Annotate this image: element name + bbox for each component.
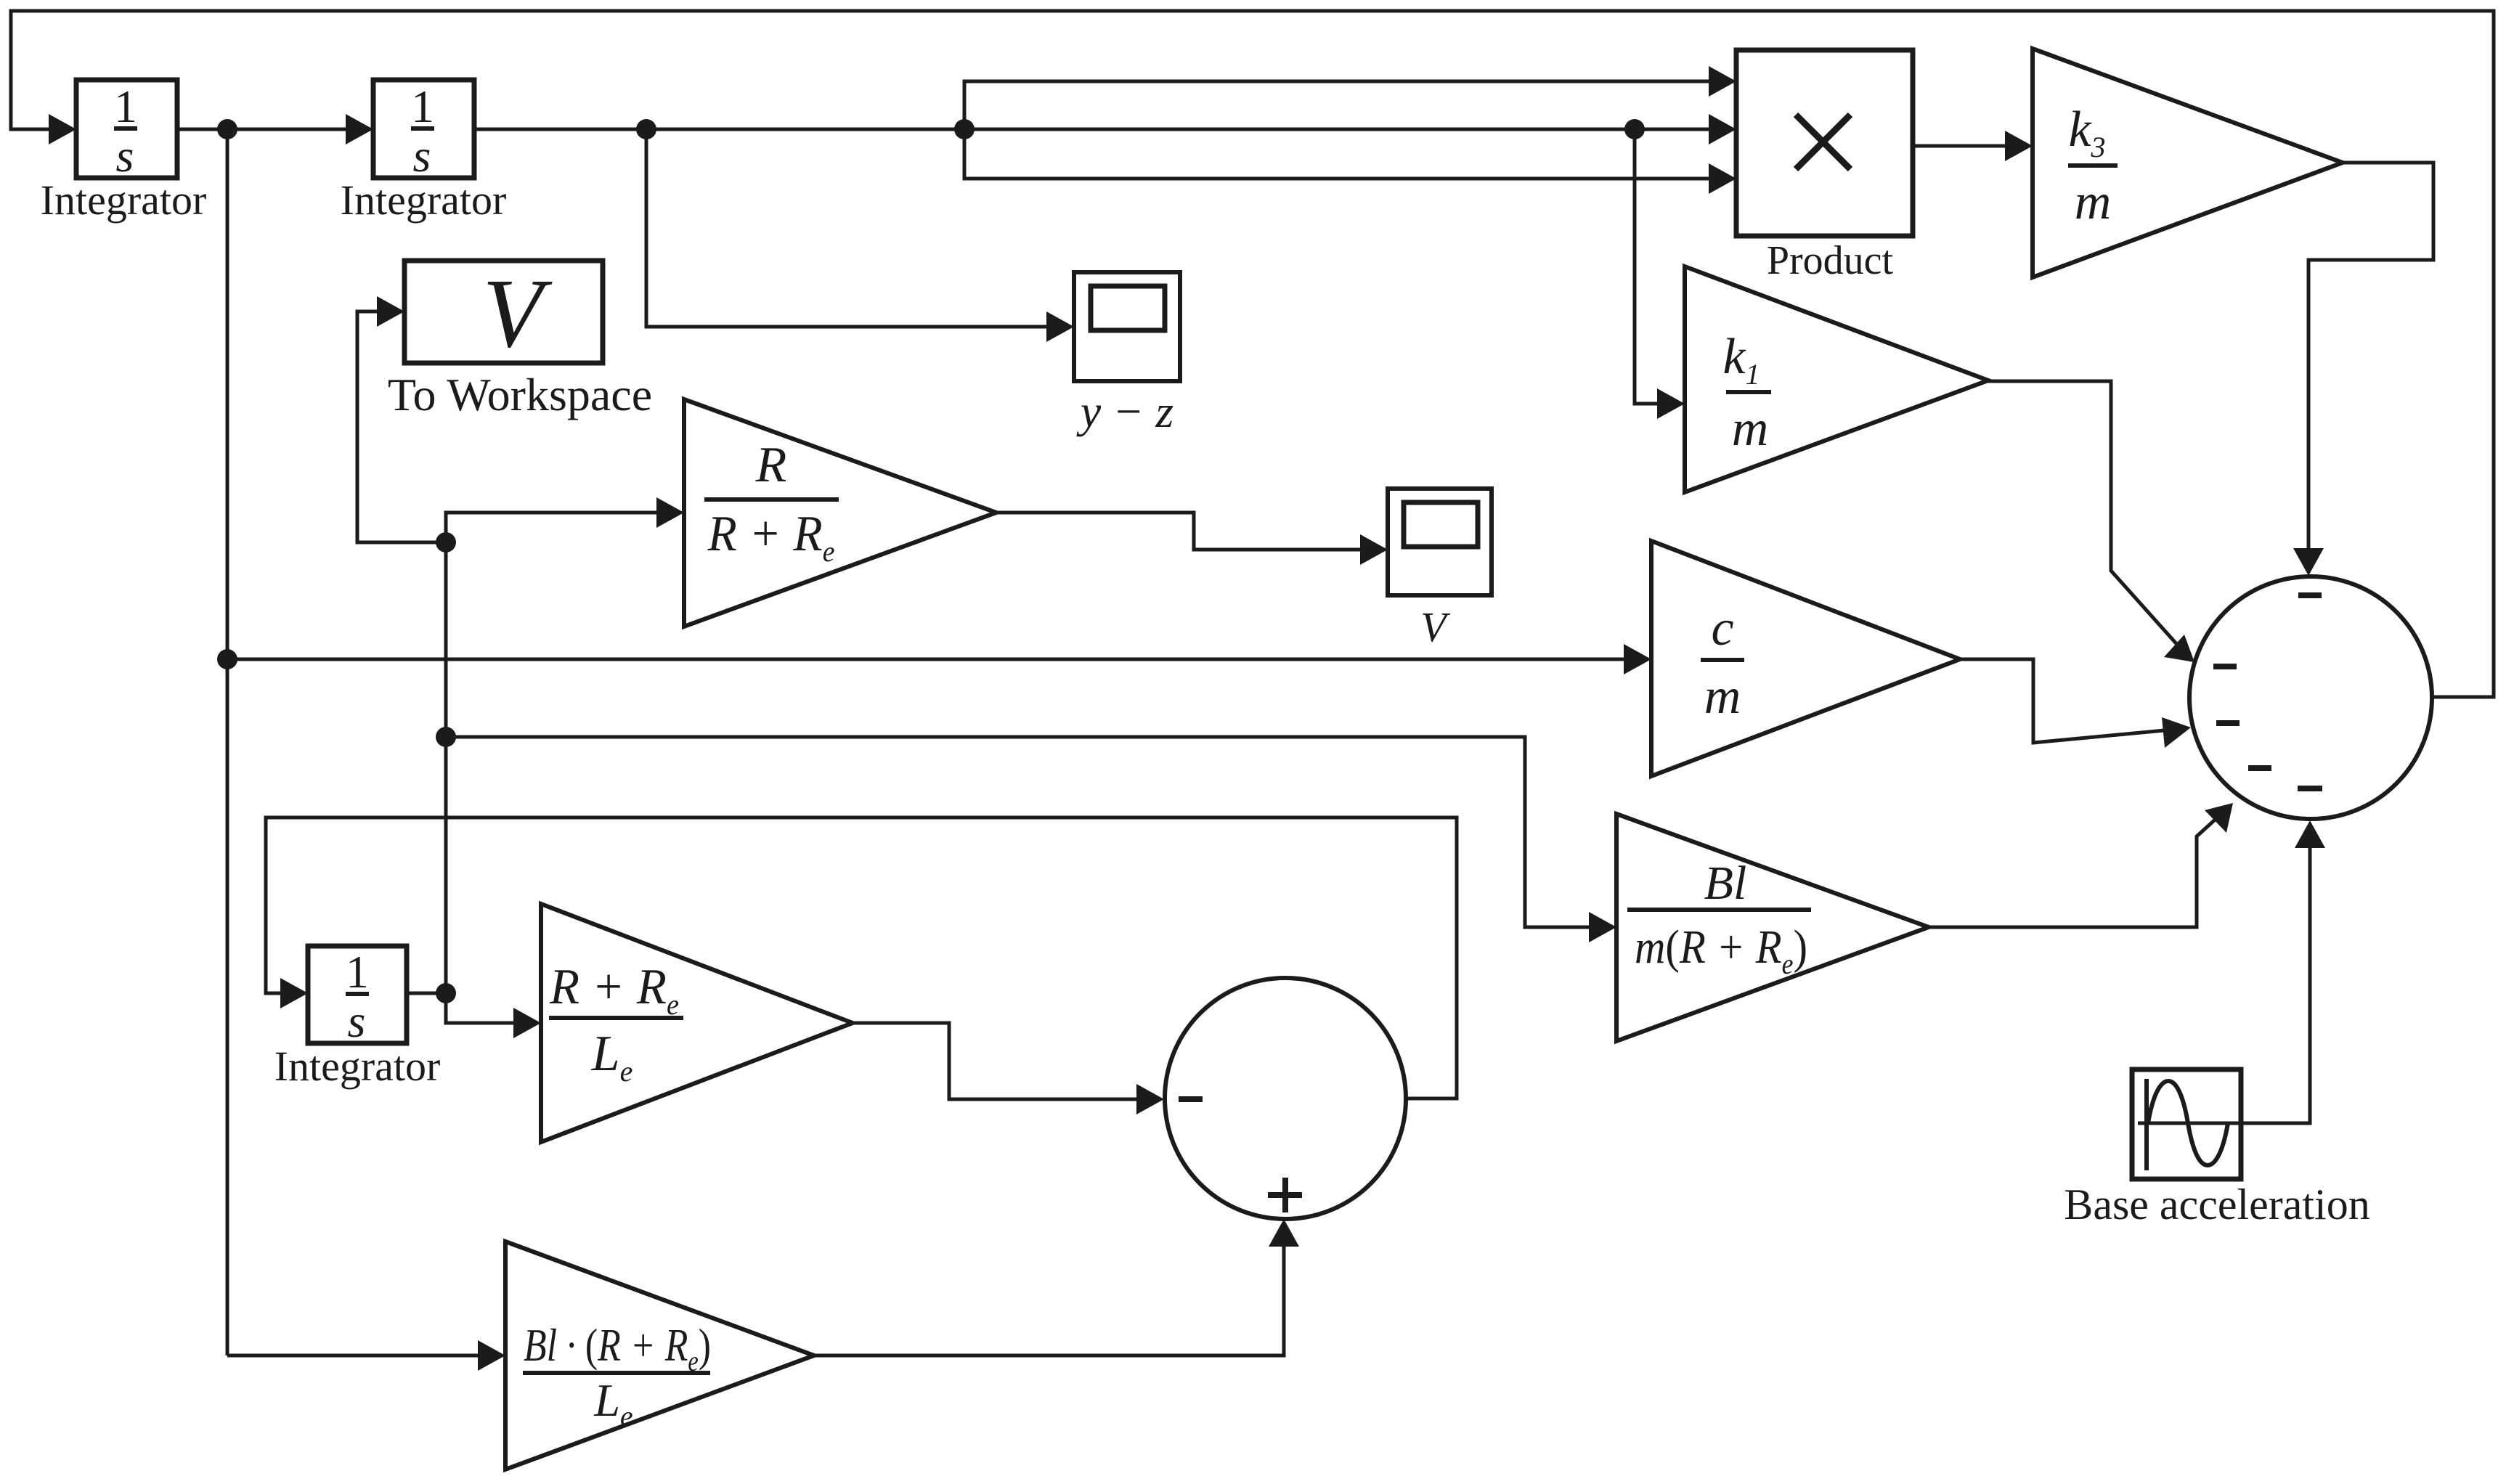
svg-text:c: c [1711,600,1733,656]
product block U4 [1736,50,1913,236]
svg-text:Integrator: Integrator [41,176,207,224]
wire current branch to gain (R+Re)/Le [446,993,541,1038]
gain k3/m triangle [2033,49,2343,277]
to-workspace block V [404,261,603,363]
svg-text:Bl · (R + Re): Bl · (R + Re) [524,1319,711,1377]
svg-text:To Workspace: To Workspace [388,369,652,420]
scope block y-z [1074,272,1180,381]
wire feedback from sum node S1 output around top border to integrator U1 input [11,11,2494,697]
sum node S2 minus sign left [1179,1096,1203,1102]
svg-text:1: 1 [411,81,434,132]
gain Bl/(m(R+Re)) value [1635,857,1807,980]
node junction current to Bl/(m(R+Re)) [436,727,456,747]
wire gain R/(R+Re) output to scope V [996,513,1388,565]
wire integrator U3 output bus to gain R/(R+Re) [407,497,684,993]
svg-text:s: s [116,130,134,182]
gain k1/m triangle [1685,266,1988,492]
svg-text:Base acceleration: Base acceleration [2064,1181,2369,1228]
wire displacement drop to gain k1/m input [1635,129,1685,419]
wire gain k1/m output to sum node S1 upper-left input [1988,381,2194,662]
wire velocity bus down left side [226,129,229,1355]
wire current branch to To Workspace [357,296,446,542]
wire current branch to gain Bl/(m(R+Re)) [446,737,1616,942]
sum node S2 circle [1165,978,1406,1219]
svg-text:1: 1 [346,946,369,998]
gain k1/m value [1722,329,1768,457]
gain c/m value [1704,600,1741,725]
svg-text:m: m [1704,669,1741,725]
gain Bl/(m(R+Re)) triangle [1616,814,1929,1041]
wire gain (R+Re)/Le output to sum node S2 left input [853,1023,1164,1114]
sum node S1 minus sign mid-left [2216,720,2240,726]
node junction velocity to c/m [217,649,237,669]
wire integrator U2 output to product U4 middle input [474,114,1736,144]
wire velocity to gain c/m [227,644,1651,674]
gain c/m triangle [1651,541,1960,776]
svg-text:1: 1 [114,81,137,132]
integrator U3 value 1/s [346,946,369,1047]
svg-text:Product: Product [1767,238,1894,283]
svg-text:Integrator: Integrator [274,1043,441,1090]
sum node S1 minus sign lower-left [2248,765,2271,771]
svg-text:Integrator: Integrator [341,176,507,224]
sum node S1 minus sign bottom [2298,786,2322,791]
gain Bl(R+Re)/Le value [524,1319,711,1432]
wire gain c/m output to sum node S1 left input [1960,659,2191,748]
base acceleration sine source block [2132,1069,2244,1179]
node junction current to To Workspace [436,532,456,553]
svg-text:Bl: Bl [1704,857,1747,910]
node junction to k1/m [1624,119,1645,139]
gain R/(R+Re) triangle [684,399,996,627]
wire Product output to gain k3/m [1913,131,2033,161]
node junction at U1 output [217,119,237,139]
wire gain Bl/(m(R+Re)) output to sum node S1 lower-left input [1929,803,2233,927]
node junction displacement split [954,119,975,139]
wire sum node S2 output feedback to integrator U3 input [266,818,1457,1098]
integrator U2 block 1/s [373,80,474,178]
sum node S1 circle [2189,576,2432,819]
sum node S2 plus sign bottom [1268,1178,1302,1212]
integrator U2 value 1/s [411,81,434,182]
wire displacement branch to Product bottom input [964,129,1736,194]
wire gain k3/m output to sum node S1 top input [2293,163,2433,576]
svg-text:R + Re: R + Re [707,506,835,568]
svg-text:m(R + Re): m(R + Re) [1635,921,1807,980]
svg-text:R + Re: R + Re [549,959,679,1021]
scope block V [1388,489,1492,595]
svg-text:s: s [348,995,366,1047]
gain (R+Re)/Le value [549,959,679,1088]
gain R/(R+Re) value [707,437,835,568]
gain Bl(R+Re)/Le triangle [505,1242,814,1469]
wire velocity to gain Bl(R+Re)/Le [227,1340,505,1371]
node junction at U3 output [436,983,456,1003]
svg-text:m: m [1732,401,1769,457]
wire Base acceleration output to sum node S1 bottom input [2241,820,2325,1123]
svg-text:V: V [482,259,553,368]
svg-text:m: m [2075,174,2112,230]
wire gain Bl(R+Re)/Le output to sum node S2 bottom input [814,1219,1299,1355]
gain k3/m value [2068,102,2111,230]
wire displacement branch to Product top input [964,66,1736,129]
node junction at U2 output [636,119,656,139]
sum node S1 minus sign upper-left [2213,664,2237,669]
svg-text:R: R [755,437,787,493]
svg-text:s: s [413,130,431,182]
integrator U1 value 1/s [114,81,137,182]
wire displacement to scope y-z [646,129,1074,342]
integrator U1 block 1/s [76,80,177,178]
integrator U3 block 1/s [308,946,407,1043]
sum node S1 minus sign top [2298,592,2322,598]
svg-text:y − z: y − z [1076,386,1174,437]
wire integrator U1 output to integrator U2 input [177,114,373,144]
gain (R+Re)/Le triangle [541,904,853,1142]
